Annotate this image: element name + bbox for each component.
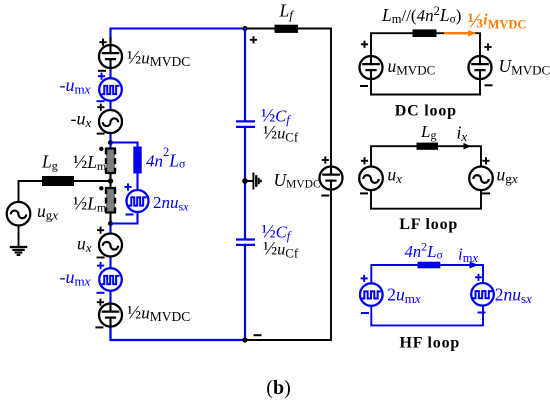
plus (361, 275, 368, 282)
wire (HF loop) (371, 265, 483, 325)
label LF loop (399, 216, 458, 233)
voltage source ugx (LF loop) (469, 167, 493, 191)
plus (99, 39, 106, 46)
wire (top rail, converter output to Cf node) (111, 29, 246, 41)
voltage source -ux (inverted sine) (99, 110, 122, 133)
voltage source ux (sine) (99, 234, 122, 257)
label 1/2 Cf (upper) (261, 105, 291, 127)
minus (126, 214, 134, 216)
voltage source 1/2 uMVDC (bottom) (99, 304, 122, 327)
svg-text:Lg: Lg (420, 122, 436, 142)
wire (right rail bottom) (245, 189, 331, 340)
svg-text:-umx: -umx (60, 75, 91, 97)
polarity dot (upper winding) (99, 147, 103, 151)
wire (109, 173, 111, 188)
svg-text:HF loop: HF loop (400, 335, 461, 352)
svg-text:½Lm: ½Lm (73, 193, 107, 214)
plus (361, 41, 368, 48)
svg-text:-umx: -umx (60, 267, 91, 289)
svg-text:2nusx: 2nusx (495, 285, 532, 307)
wire (109, 256, 111, 270)
node B (grid branch tap) (108, 178, 113, 183)
wire (109, 66, 111, 79)
wire (bottom rail blue) (111, 326, 246, 340)
svg-text:½Lm: ½Lm (73, 152, 107, 173)
label 1/2 uMVDC (top) (127, 48, 190, 70)
plus (322, 156, 329, 163)
svg-text:½uCf: ½uCf (263, 238, 299, 260)
label Lm//(4n^2 Lsigma) (381, 4, 461, 26)
voltage source 2nusx (HF loop) (471, 283, 494, 306)
label ugx (LF loop) (497, 164, 518, 186)
wire (244, 127, 246, 240)
svg-text:uMVDC: uMVDC (388, 56, 436, 77)
plus (361, 157, 368, 164)
svg-text:ix: ix (457, 123, 468, 145)
minus (97, 133, 105, 135)
label ux (77, 234, 92, 256)
voltage source UMVDC (320, 167, 343, 190)
wire (18, 226, 20, 248)
current arrow ix (464, 143, 472, 150)
node C (bottom of magnetizing branch) (108, 221, 113, 226)
polarity dot (lower winding) (99, 186, 103, 190)
label 1/2 uCf (lower) (263, 238, 299, 260)
svg-text:2umx: 2umx (387, 285, 421, 307)
svg-text:UMVDC: UMVDC (274, 170, 321, 191)
label -umx (upper) (60, 75, 91, 97)
voltage source 2nusx (square-wave) (127, 190, 149, 212)
svg-text:½uMVDC: ½uMVDC (127, 303, 190, 325)
minus (360, 85, 368, 87)
wire (DC loop) (371, 33, 480, 94)
plus (124, 183, 131, 190)
inductor Lf (275, 25, 299, 33)
svg-text:4n2Lσ: 4n2Lσ (405, 240, 444, 262)
node (bottom of Cf rail) (242, 337, 247, 342)
ground (Cf midpoint) (242, 173, 261, 190)
label 4n^2 Lsigma (HF loop) (405, 240, 444, 262)
plus (97, 227, 104, 234)
inductor 4n^2 Lsigma (HF loop) (418, 262, 441, 269)
inductor Lm//(4n^2 Lsigma) (413, 29, 437, 37)
plus (97, 299, 104, 306)
label ix (457, 123, 468, 145)
label -ux (71, 109, 92, 131)
minus (361, 312, 369, 314)
svg-text:Lm//(4n2Lσ): Lm//(4n2Lσ) (381, 4, 461, 26)
minus (Cf rail bottom) (254, 334, 262, 336)
wire (chain top stub) (109, 37, 111, 46)
label 1/2 Lm (lower) (73, 193, 107, 214)
voltage source -umx (upper square-wave) (99, 78, 122, 101)
inductor 1/2 Lm (lower) (105, 187, 116, 214)
wire (HF branch bottom) (111, 212, 138, 224)
svg-text:ugx: ugx (497, 164, 518, 186)
label ugx (37, 201, 58, 223)
svg-text:(b): (b) (266, 377, 290, 399)
wire (LF loop) (371, 146, 481, 209)
svg-text:4n2Lσ: 4n2Lσ (146, 145, 186, 171)
wire (109, 213, 111, 224)
svg-text:imx: imx (458, 245, 478, 266)
label 2nusx (HF loop) (495, 285, 532, 307)
node (top of Cf rail) (242, 26, 247, 31)
minus (482, 192, 490, 194)
svg-text:LF loop: LF loop (399, 216, 458, 233)
minus (478, 312, 486, 314)
label UMVDC (main) (274, 170, 321, 191)
minus (97, 100, 105, 102)
label uMVDC (DC loop) (388, 56, 436, 77)
svg-text:UMVDC: UMVDC (499, 56, 550, 77)
inductor Lg (LF loop) (417, 143, 439, 150)
svg-text:DC loop: DC loop (395, 103, 457, 120)
plus (97, 262, 104, 269)
label 1/2 Cf (lower) (262, 222, 292, 244)
label UMVDC (DC loop) (499, 56, 550, 77)
label HF loop (400, 335, 461, 352)
ground (grid) (10, 247, 27, 255)
label Lg (LF loop) (420, 122, 436, 142)
current arrow 1/3 iMVDC (444, 30, 477, 37)
label Lf (279, 0, 296, 22)
label 1/2 uMVDC (bottom) (127, 303, 190, 325)
plus (482, 157, 489, 164)
voltage source UMVDC (DC loop) (469, 56, 492, 79)
plus (97, 104, 104, 111)
label 1/2 Lm (upper) (73, 152, 107, 173)
voltage source 1/2 uMVDC (top) (99, 45, 122, 68)
plus (98, 73, 105, 80)
label ux (LF loop) (387, 164, 402, 186)
label imx (458, 245, 478, 266)
minus (97, 257, 105, 259)
label Lg (41, 152, 58, 173)
inductor 1/2 Lm (upper) (105, 148, 116, 175)
node A (top of magnetizing branch) (108, 140, 113, 145)
svg-text:ugx: ugx (37, 201, 58, 223)
svg-text:Lg: Lg (41, 152, 58, 173)
wire (109, 290, 111, 305)
minus (95, 326, 103, 328)
svg-text:½uMVDC: ½uMVDC (127, 48, 190, 70)
wire (244, 245, 246, 340)
label 4n^2 Lsigma (146, 145, 186, 171)
plus (475, 274, 482, 281)
inductor Lg (42, 176, 74, 186)
svg-text:ux: ux (387, 164, 402, 186)
wire (109, 132, 111, 149)
voltage source ux (LF loop) (359, 167, 383, 191)
label (b) (266, 377, 290, 399)
svg-text:½uCf: ½uCf (263, 123, 299, 145)
wire (136, 174, 138, 192)
voltage source -umx (lower square-wave) (99, 268, 122, 291)
wire (109, 224, 111, 235)
wire (Cf rail) (244, 29, 246, 122)
ac source ugx (7, 202, 31, 226)
label 2umx (387, 285, 421, 307)
wire (grid branch) (19, 181, 111, 203)
voltage source 2umx (square-wave) (360, 283, 383, 306)
minus (321, 195, 329, 197)
minus (360, 192, 368, 194)
inductor 4n^2 Lsigma (133, 147, 141, 174)
plus (Cf rail top) (250, 36, 257, 43)
svg-text:⅓iMVDC: ⅓iMVDC (468, 8, 527, 32)
wire (109, 100, 111, 112)
svg-text:ux: ux (77, 234, 92, 256)
voltage source uMVDC (360, 56, 383, 79)
label 1/2 uCf (upper) (263, 123, 299, 145)
minus (98, 70, 106, 72)
capacitor 1/2 Cf (lower) (236, 240, 255, 245)
wire (HF branch top) (111, 143, 138, 148)
minus (485, 84, 493, 86)
svg-text:Lf: Lf (279, 0, 296, 22)
plus (484, 43, 491, 50)
capacitor 1/2 Cf (upper) (236, 121, 255, 127)
minus (97, 292, 105, 294)
label 2nusx (153, 193, 189, 214)
svg-text:-ux: -ux (71, 109, 92, 131)
wire (top rail black, Cf node to right rail) (245, 29, 331, 168)
svg-text:2nusx: 2nusx (153, 193, 189, 214)
label 1/3 iMVDC (468, 8, 527, 32)
label -umx (lower) (60, 267, 91, 289)
label DC loop (395, 103, 457, 120)
current arrow imx (470, 262, 479, 269)
